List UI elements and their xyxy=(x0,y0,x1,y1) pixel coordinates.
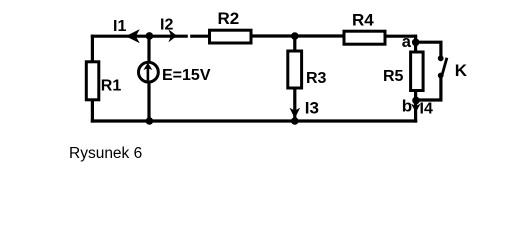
switch K xyxy=(438,55,447,78)
node junction bottom R3 xyxy=(291,117,299,125)
svg-text:I4: I4 xyxy=(420,101,433,118)
svg-text:R5: R5 xyxy=(383,68,404,85)
node junction top E xyxy=(146,32,154,40)
node junction bottom E xyxy=(146,117,154,125)
resistor R1 xyxy=(86,62,99,100)
wire R3 branch lower xyxy=(293,88,296,121)
svg-text:R4: R4 xyxy=(352,11,374,30)
resistor R4 xyxy=(344,31,385,44)
wire left rail upper xyxy=(91,35,94,62)
wire right rail a to R5 xyxy=(414,35,417,52)
wire left rail lower xyxy=(91,100,94,123)
svg-text:I2: I2 xyxy=(160,17,173,34)
current arrow I1 xyxy=(126,29,140,43)
svg-text:K: K xyxy=(455,61,468,80)
wire top rail middle segment xyxy=(252,34,343,37)
wire top rail left segment xyxy=(91,35,209,38)
wire bottom rail xyxy=(91,119,417,122)
svg-text:Rysunek 6: Rysunek 6 xyxy=(69,145,142,162)
node b xyxy=(412,97,420,105)
node junction top R3 xyxy=(291,32,299,40)
svg-text:b: b xyxy=(402,97,412,116)
svg-text:R2: R2 xyxy=(218,9,240,28)
current arrow I4 xyxy=(411,104,421,113)
current arrow I2 xyxy=(168,29,177,42)
svg-text:R1: R1 xyxy=(101,77,122,94)
resistor R3 xyxy=(288,51,302,88)
wire gap artifact xyxy=(188,33,190,39)
resistor R2 xyxy=(210,30,252,43)
current arrow I3 xyxy=(290,108,301,119)
svg-text:a: a xyxy=(402,33,412,51)
wire switch branch top xyxy=(416,42,441,57)
wire source branch lower xyxy=(147,84,150,122)
node a xyxy=(412,39,420,47)
svg-text:R3: R3 xyxy=(306,70,327,87)
svg-text:E=15V: E=15V xyxy=(162,67,211,84)
svg-text:I1: I1 xyxy=(113,18,126,35)
wire source branch upper xyxy=(147,36,150,62)
wire R3 branch upper xyxy=(293,36,296,52)
wire switch branch bottom xyxy=(416,76,441,100)
wire top rail right segment xyxy=(386,35,417,38)
voltage source E xyxy=(139,62,159,82)
svg-text:I3: I3 xyxy=(305,98,319,117)
resistor R5 xyxy=(411,52,424,91)
wire right rail R5 to bottom xyxy=(414,91,417,123)
